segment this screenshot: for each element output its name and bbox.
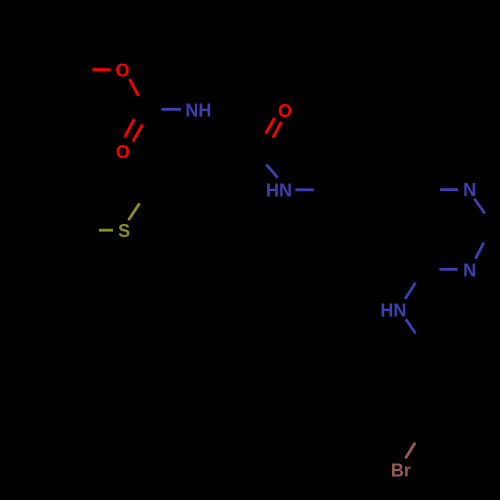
svg-text:N: N xyxy=(463,180,476,200)
svg-text:O: O xyxy=(115,61,129,81)
svg-text:O: O xyxy=(116,142,130,162)
svg-text:Br: Br xyxy=(391,460,411,480)
svg-text:HN: HN xyxy=(380,300,406,320)
svg-text:HN: HN xyxy=(266,180,292,200)
svg-text:O: O xyxy=(278,101,292,121)
svg-text:S: S xyxy=(118,221,130,241)
svg-text:N: N xyxy=(463,260,476,280)
svg-text:NH: NH xyxy=(185,101,211,121)
